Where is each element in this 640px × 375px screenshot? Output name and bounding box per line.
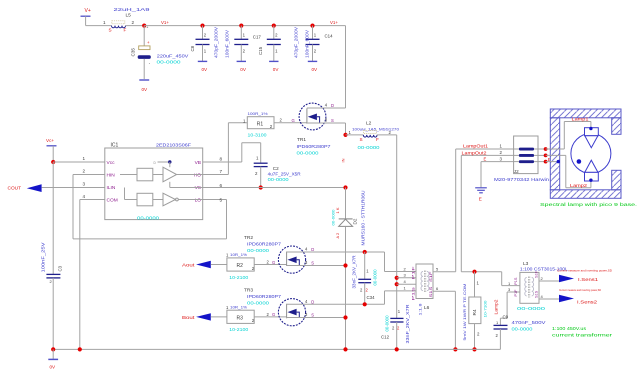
wire TR3 drain row <box>303 303 385 305</box>
wire Vc+ rail down to C3 <box>52 162 54 274</box>
capacitor C2 4u7F_25V_X5R <box>254 156 301 188</box>
ground E earth symbol <box>475 188 487 202</box>
svg-text:C35: C35 <box>131 48 136 57</box>
svg-text:0V: 0V <box>240 67 247 72</box>
wire L3 pin 3 to C9 <box>500 292 520 325</box>
wire V+ to L5 <box>86 25 112 27</box>
svg-text:C8: C8 <box>190 45 195 51</box>
svg-text:10-2100: 10-2100 <box>229 275 249 280</box>
wire LampOut2 to sense node <box>461 155 501 271</box>
connector J2 M20-9770342 <box>494 136 550 182</box>
wire R1 to TR1 gate <box>274 118 307 123</box>
svg-text:+: + <box>147 40 150 45</box>
svg-text:F: F <box>124 28 127 33</box>
svg-text:ILIN: ILIN <box>107 185 116 191</box>
wire TR1 drain to V1+ <box>324 107 346 109</box>
capacitor C8 470pF_2000V <box>190 26 219 62</box>
wire sense node to L3 pin 1 <box>502 272 520 286</box>
wire L2 output bus down <box>396 135 398 319</box>
svg-text:current transformer: current transformer <box>552 332 613 337</box>
capacitor C9 470nF_500V <box>494 315 547 350</box>
wire COM pin 4 to ground <box>80 194 105 349</box>
svg-text:HIN: HIN <box>107 172 116 178</box>
svg-text:+: + <box>146 26 148 30</box>
inductor L5 22uH_1A9 <box>103 7 151 33</box>
junction node L6 pin6 ground <box>453 347 457 351</box>
svg-text:V1+: V1+ <box>330 20 338 25</box>
node E on shield <box>557 160 560 163</box>
svg-text:00-0000: 00-0000 <box>385 315 390 332</box>
svg-text:L6: L6 <box>424 305 430 311</box>
wire bus to L6 pin 4 <box>397 283 416 285</box>
junction node V1+ at L5 <box>142 24 146 28</box>
svg-text:470pF_2000V: 470pF_2000V <box>214 27 219 58</box>
svg-text:00-0000: 00-0000 <box>157 60 182 65</box>
svg-text:33nF_2KV_X7R: 33nF_2KV_X7R <box>352 256 357 289</box>
junction node Vcc <box>51 160 55 164</box>
svg-text:C12: C12 <box>381 334 390 339</box>
wire J2 pin1 to Lamp1 electrode <box>546 117 591 149</box>
svg-text:Lamp2: Lamp2 <box>494 299 499 315</box>
svg-text:Bout: Bout <box>182 315 195 320</box>
junction node L2 input <box>343 133 347 137</box>
junction node VS at bus <box>343 185 347 189</box>
svg-text:C15: C15 <box>258 46 263 55</box>
svg-text:R3: R3 <box>237 316 244 322</box>
ground 0V under C14 <box>308 61 318 72</box>
svg-text:470pF_2000V: 470pF_2000V <box>294 27 299 58</box>
svg-text:100nF_25V: 100nF_25V <box>41 242 46 272</box>
wire L6 pin 5 to LampOut1 <box>433 149 456 272</box>
port Bout input arrow <box>182 313 211 320</box>
resistor R4 5mV 1W <box>463 272 487 350</box>
svg-text:00-0000: 00-0000 <box>373 269 378 286</box>
svg-text:IC1: IC1 <box>111 143 119 149</box>
diode D2 MURS160 STTH1R06U <box>331 191 366 246</box>
svg-text:D: D <box>331 103 334 108</box>
svg-text:C9: C9 <box>503 315 509 320</box>
svg-text:1: 1 <box>103 20 106 25</box>
svg-text:P1S P1F: P1S P1F <box>411 266 416 301</box>
svg-text:P1F: P1F <box>514 289 518 297</box>
svg-text:S: S <box>331 118 334 123</box>
lamp electrode bottom <box>585 160 599 182</box>
svg-text:TR1: TR1 <box>297 137 306 143</box>
svg-text:4: 4 <box>83 194 86 199</box>
svg-text:100R_1%: 100R_1% <box>248 111 268 116</box>
svg-text:HO: HO <box>194 172 201 178</box>
svg-text:C17: C17 <box>253 34 262 39</box>
svg-text:A 2: A 2 <box>335 232 340 239</box>
ground 0V under C35 <box>139 80 149 92</box>
svg-text:TR2: TR2 <box>244 235 253 241</box>
svg-text:COM: COM <box>107 197 118 203</box>
junction node cap bank 2 <box>239 24 243 28</box>
svg-text:1: 1 <box>83 156 86 161</box>
svg-text:S: S <box>360 137 363 142</box>
port I.Sens2 output arrow <box>559 288 602 304</box>
lamp fill dot <box>577 159 582 164</box>
svg-text:0V: 0V <box>273 67 280 72</box>
svg-text:S1S: S1S <box>535 290 539 298</box>
svg-text:100uH_1A5_MSS1270: 100uH_1A5_MSS1270 <box>352 126 400 131</box>
wire L3 pin 4 to I.Sens2 <box>539 298 559 300</box>
wire TR3 drain to L6 pin 1 <box>385 291 417 304</box>
svg-text:0V: 0V <box>50 365 57 370</box>
svg-text:Aout: Aout <box>182 263 195 268</box>
svg-text:00-0000: 00-0000 <box>247 248 270 253</box>
svg-text:V1+: V1+ <box>161 20 169 25</box>
junction node cap bank 1 <box>200 24 204 28</box>
svg-text:S: S <box>311 261 314 266</box>
IC1 internal buffer triangle 1 <box>163 167 177 182</box>
port I.Sens1 output arrow <box>557 268 613 282</box>
lamp electrode top <box>585 127 599 148</box>
svg-text:IPD60R280P7: IPD60R280P7 <box>297 144 332 149</box>
svg-text:10R_1%: 10R_1% <box>230 252 247 257</box>
wire J2 pin3 E to shield <box>546 161 559 163</box>
capacitor C14 100nF_600V <box>305 26 334 62</box>
node J2 pin 2 dot <box>544 154 548 158</box>
svg-text:P1S: P1S <box>514 277 518 285</box>
svg-text:00-0000: 00-0000 <box>268 177 290 182</box>
svg-text:0V: 0V <box>202 67 209 72</box>
svg-text:00-0000: 00-0000 <box>517 306 546 311</box>
capacitor C34 33nF_2KV_X7R <box>352 252 378 304</box>
svg-text:C14: C14 <box>325 34 334 39</box>
svg-text:Current measure and inverting: Current measure and inverting power,SD <box>557 268 613 272</box>
svg-text:1 K: 1 K <box>335 207 340 213</box>
svg-text:4u7F_25V_X5R: 4u7F_25V_X5R <box>268 171 301 176</box>
ground 0V under C8 <box>198 61 208 72</box>
svg-text:22uH_1A9: 22uH_1A9 <box>114 7 151 12</box>
junction node C34 top <box>363 250 367 254</box>
svg-text:220uF_450V: 220uF_450V <box>157 53 190 58</box>
wire VB pin 8 to C2 <box>203 143 261 164</box>
wire ILIN pin 3 <box>42 182 105 188</box>
wire V1+ rail <box>144 20 345 108</box>
junction node rail C12 <box>395 347 399 351</box>
svg-text:VB: VB <box>195 160 201 166</box>
wire L3 pin 2 to I.Sens1 <box>539 280 559 282</box>
svg-text:E: E <box>484 157 487 162</box>
junction node rail COM <box>78 347 82 351</box>
junction node rail main bus <box>343 347 347 351</box>
svg-text:E: E <box>479 197 482 202</box>
junction node C2 on VS <box>259 185 263 189</box>
wire D2 anode to ground bus <box>345 226 347 349</box>
svg-text:00-0000: 00-0000 <box>297 151 320 156</box>
junction node R4 top <box>472 270 476 274</box>
wire J2 pin2 to Lamp2 electrode <box>546 155 591 188</box>
wire LampOut2 to J2 pin 2 <box>461 150 513 155</box>
resistor R3 10R_1% <box>226 304 255 332</box>
svg-text:G: G <box>292 118 295 123</box>
wire Bout to R3 <box>211 316 227 318</box>
svg-text:TR3: TR3 <box>244 287 253 293</box>
op-amp U1 gate driver IC1 2ED2103S06F <box>105 143 223 221</box>
svg-text:5mV 1W 1WR P TE.COM: 5mV 1W 1WR P TE.COM <box>463 284 467 341</box>
svg-text:D: D <box>311 299 314 304</box>
svg-text:D2: D2 <box>353 218 358 224</box>
node J2 pin 1 dot <box>544 147 548 151</box>
junction node cap bank 4 <box>310 24 314 28</box>
lamp shield frame hatched bottom bar <box>550 190 621 199</box>
svg-text:Vcc: Vcc <box>107 160 116 166</box>
junction node rail C3 <box>51 347 55 351</box>
transformer L3 current transformer 1:100 <box>508 261 569 311</box>
wire HIN pin 2 from LO <box>73 169 227 239</box>
IC1 internal bootstrap diode and node <box>154 160 172 165</box>
svg-text:10-7100: 10-7100 <box>483 300 488 318</box>
junction node TR3 source <box>343 315 347 319</box>
junction node L6 pin 4 <box>395 282 399 286</box>
wire VS pin 6 <box>203 187 346 189</box>
svg-text:Lamp2: Lamp2 <box>570 183 588 188</box>
wire bus to L6 pin 3 <box>397 277 416 279</box>
inductor L2 100uH_1A5_MSS1270 <box>346 121 400 151</box>
capacitor C12 33nF_2KV_X7R <box>381 305 410 350</box>
svg-text:8: 8 <box>220 156 223 161</box>
svg-text:Spectral lamp with pico 9 base: Spectral lamp with pico 9 base. <box>540 202 637 207</box>
IC1 internal logic input square 2 <box>137 193 153 206</box>
svg-text:100nF_600V: 100nF_600V <box>225 30 230 58</box>
svg-text:2: 2 <box>132 20 135 25</box>
wire L5 to node V1+ <box>126 25 145 27</box>
IC1 internal inverter triangle 2 <box>163 193 178 206</box>
wire Vcc pin 1 <box>53 156 105 162</box>
svg-text:L5: L5 <box>126 13 132 19</box>
svg-text:J2: J2 <box>514 169 519 174</box>
capacitor C35 220uF_450V <box>131 26 190 79</box>
svg-text:470nF_500V: 470nF_500V <box>512 320 547 325</box>
svg-text:D: D <box>311 247 314 252</box>
wire TR3 source to bus <box>287 317 346 319</box>
power symbol V+ <box>81 8 91 26</box>
lamp shield frame hatched top bar <box>550 109 621 118</box>
svg-text:G: G <box>272 312 275 317</box>
transistor Q2 MOSFET TR2 IPD60R280P7 <box>244 235 314 273</box>
svg-text:Vc+: Vc+ <box>46 138 54 143</box>
capacitor C3 100nF_25V <box>41 242 63 349</box>
wire LampOut1 to J2 pin 1 <box>456 144 514 149</box>
wire VS node to D2 <box>345 188 347 220</box>
svg-text:00-0000: 00-0000 <box>512 327 534 332</box>
ground 0V under C17 <box>237 61 247 72</box>
svg-text:Current measure and inverting: Current measure and inverting power,SD <box>559 288 602 292</box>
svg-text:10-3100: 10-3100 <box>248 132 268 137</box>
svg-text:COUT: COUT <box>8 186 22 191</box>
svg-text:C34: C34 <box>367 295 376 300</box>
port Aout input arrow <box>182 261 211 268</box>
svg-text:00-0000: 00-0000 <box>358 145 381 150</box>
svg-text:IN: IN <box>341 158 346 162</box>
junction node L6 pin 3 <box>395 276 399 280</box>
svg-text:G: G <box>272 260 275 265</box>
node J2 pin 3 dot <box>544 160 548 164</box>
svg-text:2ED2103S06F: 2ED2103S06F <box>156 143 192 148</box>
svg-text:S: S <box>109 28 112 33</box>
svg-text:LO: LO <box>195 197 202 203</box>
port COUT input arrow <box>8 184 42 192</box>
junction node cap bank 3 <box>272 24 276 28</box>
capacitor C15 470pF_2000V <box>258 26 299 62</box>
svg-text:MURS160 - STTH1R06U: MURS160 - STTH1R06U <box>361 191 366 246</box>
svg-text:0V: 0V <box>142 87 149 92</box>
svg-text:33nF_2KV_X7R: 33nF_2KV_X7R <box>405 305 410 344</box>
svg-text:00-0000: 00-0000 <box>247 300 270 305</box>
svg-text:S1S S1F: S1S S1F <box>428 271 433 298</box>
svg-text:IPD60R280P7: IPD60R280P7 <box>247 242 282 247</box>
IC1 internal wires <box>120 162 203 200</box>
capacitor C17 100nF_600V <box>225 26 262 62</box>
svg-text:3: 3 <box>83 182 86 187</box>
svg-text:M20-9770342 Harwin: M20-9770342 Harwin <box>494 177 550 182</box>
svg-text:10-2100: 10-2100 <box>229 327 249 332</box>
transistor Q1 MOSFET TR1 IPD60R280P7 <box>297 103 335 156</box>
wire TR2 source to bus <box>287 265 346 267</box>
wire TR2 drain to L6 pin 2 <box>385 252 417 272</box>
wire L6 pin 6 to ground <box>433 291 455 349</box>
lamp bulb circle <box>571 134 611 174</box>
svg-text:IPD60R280P7: IPD60R280P7 <box>247 294 282 299</box>
svg-text:100nF_600V: 100nF_600V <box>305 30 310 58</box>
resistor R2 10R_1% <box>226 252 255 280</box>
wire ground rail 0V <box>53 348 500 350</box>
junction node C34 bottom <box>363 302 367 306</box>
svg-text:5: 5 <box>220 198 223 203</box>
svg-text:10R_1%: 10R_1% <box>230 304 247 309</box>
svg-text:LampOut2: LampOut2 <box>462 150 488 155</box>
svg-text:V+: V+ <box>85 8 91 14</box>
svg-text:S: S <box>311 313 314 318</box>
svg-text:00-0000: 00-0000 <box>331 209 336 226</box>
svg-text:LampOut1: LampOut1 <box>463 144 489 149</box>
wire HO pin 7 to R1 <box>203 123 248 175</box>
svg-text:R1: R1 <box>257 122 264 128</box>
wire R2 to TR2 gate <box>254 260 286 265</box>
IC1 internal logic input square 1 <box>137 168 153 181</box>
svg-text:R4: R4 <box>472 309 478 315</box>
ground 0V under C15 <box>269 61 279 72</box>
wire TR1 source to L2 <box>307 123 346 135</box>
svg-text:Lamp1: Lamp1 <box>572 117 590 122</box>
comment green current transformer note <box>552 326 613 338</box>
svg-text:1:100 450V.us: 1:100 450V.us <box>552 326 587 331</box>
lamp shield frame hatched right upper bar <box>612 118 621 135</box>
svg-text:2: 2 <box>83 169 86 174</box>
junction node TR2 source <box>343 263 347 267</box>
wire E to J2 pin 3 <box>481 156 514 187</box>
transistor Q3 MOSFET TR3 IPD60R280P7 <box>244 287 314 326</box>
svg-text:7: 7 <box>220 169 223 174</box>
junction node R4 bottom <box>472 347 476 351</box>
svg-text:C3: C3 <box>58 265 63 271</box>
ground 0V symbol bottom left <box>48 349 58 369</box>
wire Aout to R2 <box>211 264 227 266</box>
transformer L6 1:1.8 <box>404 264 440 316</box>
wire TR2 drain row <box>303 251 385 253</box>
svg-text:F: F <box>376 137 379 142</box>
svg-text:I.Sens2: I.Sens2 <box>577 299 598 304</box>
svg-text:S1F: S1F <box>535 270 539 278</box>
svg-text:00-0000: 00-0000 <box>137 215 160 220</box>
svg-text:I.Sens1: I.Sens1 <box>578 277 599 282</box>
lamp shield frame hatched right lower bar <box>612 170 621 190</box>
resistor R1 100R_1% <box>243 111 274 137</box>
wire R3 to TR3 gate <box>254 312 286 317</box>
svg-text:R2: R2 <box>237 263 244 269</box>
svg-text:1:1.8: 1:1.8 <box>418 302 423 315</box>
lamp shield frame hatched left bar <box>550 118 559 190</box>
power symbol Vc+ <box>46 138 57 162</box>
svg-text:0V: 0V <box>312 67 319 72</box>
